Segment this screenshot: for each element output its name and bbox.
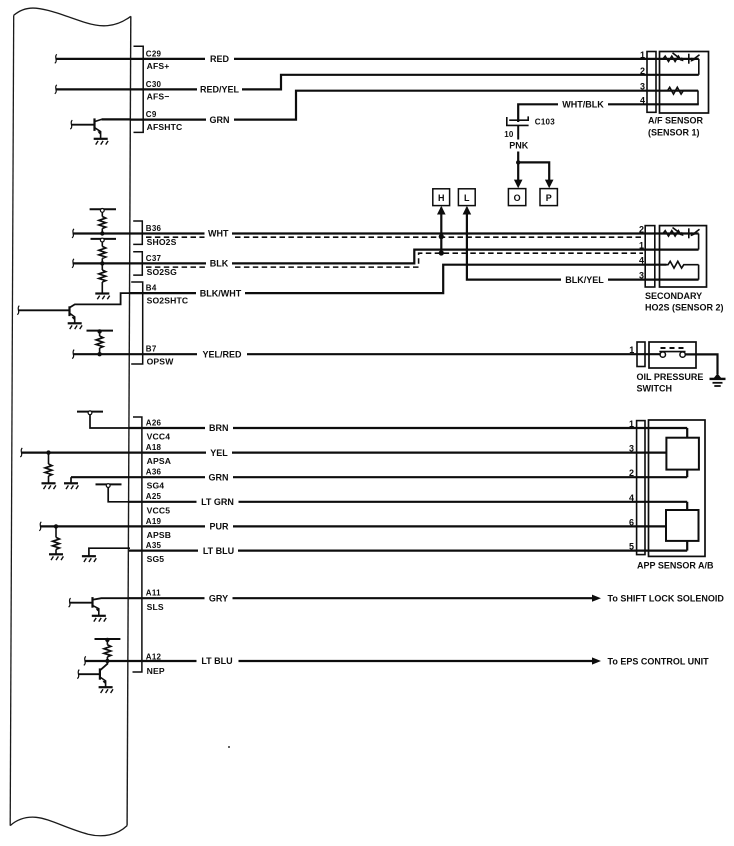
oil pressure switch box xyxy=(649,342,696,368)
svg-text:H: H xyxy=(438,193,445,203)
wire A12 LT BLU to EPS control unit xyxy=(85,655,593,668)
svg-text:6: 6 xyxy=(629,517,634,527)
svg-text:LT GRN: LT GRN xyxy=(201,497,234,507)
svg-text:OPSW: OPSW xyxy=(147,356,175,366)
label To EPS CONTROL UNIT xyxy=(608,656,710,666)
wire A11 GRY to shift lock solenoid xyxy=(129,592,593,605)
svg-text:3: 3 xyxy=(629,444,634,454)
VCC4 feed line xyxy=(90,415,130,428)
shield dashed line WHT xyxy=(146,236,643,238)
connector bracket A26-A12 xyxy=(133,417,142,672)
svg-text:A12: A12 xyxy=(146,653,162,662)
APP inner wiring pin5 up xyxy=(686,541,688,551)
label YEL xyxy=(210,448,228,458)
pin label C30 / AFS- xyxy=(146,80,170,102)
transistor Q1 AFSHTC driver xyxy=(71,118,102,138)
SG5 inner line + ground drop xyxy=(89,548,130,556)
pin label C37 / SO2SG xyxy=(146,254,177,277)
svg-text:YEL: YEL xyxy=(210,448,228,458)
label C103 xyxy=(535,117,555,126)
break mark C30 xyxy=(55,85,57,94)
connector bracket C37 xyxy=(133,252,142,275)
svg-text:SO2SHTC: SO2SHTC xyxy=(147,296,189,306)
SG4 ground drop xyxy=(70,477,72,482)
APP connector bar xyxy=(637,421,645,555)
ground SG4 xyxy=(64,483,78,489)
VCC5 feed line xyxy=(108,487,130,501)
test point L vertical wire + BLK/YEL to sensor2 pin 3 xyxy=(467,208,699,287)
break mark B36 xyxy=(72,229,74,238)
svg-text:A26: A26 xyxy=(146,418,162,427)
label PUR xyxy=(209,522,229,532)
svg-text:L: L xyxy=(464,193,470,203)
terminal box L xyxy=(458,189,475,206)
svg-text:A36: A36 xyxy=(146,468,162,477)
label BRN xyxy=(209,423,229,433)
svg-text:GRY: GRY xyxy=(209,593,228,603)
power rail circle R2 xyxy=(100,238,104,242)
svg-text:4: 4 xyxy=(640,95,645,105)
test point H vertical wire xyxy=(440,208,442,253)
wire A26 BRN to APP pin 1 xyxy=(129,422,687,435)
svg-text:B36: B36 xyxy=(146,224,162,233)
svg-text:A/F SENSOR: A/F SENSOR xyxy=(648,115,704,125)
svg-text:4: 4 xyxy=(629,493,634,503)
svg-text:AFSHTC: AFSHTC xyxy=(147,122,183,132)
svg-text:3: 3 xyxy=(640,82,645,92)
svg-text:A25: A25 xyxy=(146,492,162,501)
wire from switch to ground xyxy=(686,354,718,374)
pin numbers APP sensor xyxy=(629,419,634,552)
wire C9 GRN to sensor pin 3 xyxy=(102,91,699,127)
ground SG5 xyxy=(82,556,96,562)
label OIL PRESSURE SWITCH xyxy=(637,372,704,394)
power rail circle R1 xyxy=(100,209,104,213)
svg-text:2: 2 xyxy=(639,225,644,235)
switch contacts xyxy=(659,348,685,357)
resistor R3 below C37 to ground xyxy=(99,263,106,293)
break mark Q1 base xyxy=(70,120,72,129)
svg-text:To SHIFT LOCK SOLENOID: To SHIFT LOCK SOLENOID xyxy=(608,594,725,604)
terminal box P xyxy=(540,189,557,206)
svg-text:VCC5: VCC5 xyxy=(147,505,171,515)
in-line connector C103 xyxy=(507,116,529,125)
arrow to shift lock solenoid xyxy=(592,595,601,602)
svg-text:SWITCH: SWITCH xyxy=(637,383,673,393)
label RED/YEL xyxy=(200,85,240,95)
ground below APSB resistor xyxy=(49,554,63,560)
pin label B4 / SO2SHTC xyxy=(146,284,188,306)
svg-text:1: 1 xyxy=(640,50,645,60)
svg-text:APSB: APSB xyxy=(147,530,171,540)
svg-text:2: 2 xyxy=(629,468,634,478)
wire A18 YEL to APP pin 3 xyxy=(21,446,667,459)
APP inner wiring pin1 down xyxy=(686,428,688,438)
arrow to EPS control unit xyxy=(592,657,601,664)
svg-text:OIL PRESSURE: OIL PRESSURE xyxy=(637,372,704,382)
terminal box H xyxy=(433,189,450,206)
label BLK/WHT xyxy=(200,288,242,298)
stray printed dot xyxy=(228,746,230,748)
label GRN xyxy=(209,472,229,482)
label gap + WHT xyxy=(205,227,233,240)
svg-text:SECONDARY: SECONDARY xyxy=(645,291,702,301)
svg-text:APSA: APSA xyxy=(147,456,171,466)
arrow into L box xyxy=(463,206,472,215)
ground below R3 xyxy=(95,294,109,300)
svg-text:To EPS CONTROL UNIT: To EPS CONTROL UNIT xyxy=(608,656,710,666)
svg-text:P: P xyxy=(546,193,552,203)
transistor Q3 SLS driver xyxy=(69,597,130,615)
wire A36 GRN to APP pin 2 xyxy=(71,471,687,484)
svg-text:SO2SG: SO2SG xyxy=(147,267,178,277)
svg-text:SG5: SG5 xyxy=(147,554,165,564)
svg-text:C9: C9 xyxy=(146,110,157,119)
pin numbers HO2S xyxy=(639,225,644,281)
ECM top torn edge xyxy=(14,8,131,26)
svg-text:VCC4: VCC4 xyxy=(147,432,171,442)
HO2S element (zigzag with arrows) pins 2-1 xyxy=(663,228,700,250)
wire WHT/BLK from sensor pin 4 xyxy=(518,98,699,123)
HO2S outer box xyxy=(660,226,707,287)
svg-text:1: 1 xyxy=(629,345,634,355)
power rail bar above R1 xyxy=(90,208,116,210)
wire A35 LT BLU to APP pin 5 xyxy=(129,544,687,557)
pull-up resistor R1 to SHO2S xyxy=(99,212,106,233)
break mark B7 xyxy=(72,350,74,359)
power rail dot R4 xyxy=(97,329,101,333)
label PNK xyxy=(509,140,529,150)
pin label B36 / SHO2S xyxy=(146,224,177,247)
svg-text:3: 3 xyxy=(639,271,644,281)
pin label A36 / SG4 xyxy=(146,468,165,491)
power rail bar NEP xyxy=(95,638,121,640)
power rail bar VCC4 xyxy=(77,411,103,413)
label LT BLU xyxy=(201,656,232,666)
svg-text:B4: B4 xyxy=(146,284,157,293)
wire B7 YEL/RED to oil pressure switch xyxy=(73,348,661,361)
label SECONDARY HO2S (SENSOR 2) xyxy=(645,291,724,313)
break mark A18 xyxy=(20,448,22,457)
label GRN xyxy=(210,115,230,125)
wire B4 BLK/WHT to sensor2 pin 4 xyxy=(129,265,667,300)
power rail bar above R2 xyxy=(91,238,117,240)
chassis ground symbol xyxy=(710,373,726,386)
svg-text:SG4: SG4 xyxy=(147,481,165,491)
svg-text:2: 2 xyxy=(640,66,645,76)
pull-down resistor APSB xyxy=(53,526,60,554)
terminal box O xyxy=(508,189,525,206)
svg-text:YEL/RED: YEL/RED xyxy=(202,349,242,359)
ground Q1 emitter xyxy=(94,139,108,145)
svg-text:B7: B7 xyxy=(146,345,157,354)
APP inner wiring pin4 down xyxy=(686,502,688,510)
label GRY xyxy=(209,593,228,603)
svg-text:(SENSOR 1): (SENSOR 1) xyxy=(648,127,700,137)
pin label A26 / VCC4 xyxy=(146,418,170,441)
arrow into H box xyxy=(437,206,446,215)
junction node APSA xyxy=(46,450,50,454)
label BLK/YEL xyxy=(565,275,604,285)
junction dot H on BLK shield xyxy=(439,250,444,255)
svg-text:1: 1 xyxy=(639,241,644,251)
APP sensor outer box xyxy=(649,420,706,556)
svg-text:SHO2S: SHO2S xyxy=(147,237,177,247)
svg-text:4: 4 xyxy=(639,256,644,266)
svg-text:APP SENSOR A/B: APP SENSOR A/B xyxy=(637,560,714,570)
wire C37 BLK to sensor2 pin 1 xyxy=(73,250,699,264)
oil pressure switch connector bar xyxy=(637,342,645,367)
junction node on C37 wire xyxy=(100,261,104,265)
svg-text:RED/YEL: RED/YEL xyxy=(200,85,240,95)
svg-text:A18: A18 xyxy=(146,443,162,452)
wire A25 LT GRN to APP pin 4 xyxy=(129,495,687,508)
ground below APSA resistor xyxy=(42,483,56,489)
pull-down resistor APSA xyxy=(45,453,52,483)
power rail bar VCC5 xyxy=(96,483,122,485)
ECM left edge xyxy=(10,15,14,825)
ECM right edge xyxy=(127,16,131,825)
HO2S connector bar xyxy=(645,226,655,287)
pin label A18 / APSA xyxy=(146,443,171,466)
wire C29 RED to sensor pin 1 xyxy=(56,52,699,66)
break mark Q2 base xyxy=(17,306,19,315)
svg-text:A11: A11 xyxy=(146,589,161,598)
break mark Q4 base xyxy=(77,670,79,679)
svg-text:WHT: WHT xyxy=(208,229,229,239)
svg-text:AFS−: AFS− xyxy=(147,92,170,102)
junction node NEP xyxy=(105,659,109,663)
pin numbers A/F sensor xyxy=(640,50,645,105)
pin label A25 / VCC5 xyxy=(146,492,170,515)
junction node PNK split xyxy=(516,160,520,164)
svg-text:BRN: BRN xyxy=(209,423,229,433)
break mark A19 xyxy=(39,522,41,531)
label LT GRN xyxy=(201,497,234,507)
label RED xyxy=(210,54,230,64)
connector bracket B4-B7 xyxy=(131,282,143,364)
A/F sensor heater resistor pins 3-4 xyxy=(664,87,698,104)
label WHT/BLK xyxy=(562,99,604,109)
wire PNK below label to junction xyxy=(518,152,549,181)
A/F sensor element (zigzag with arrows) pins 1-2 xyxy=(663,53,700,75)
ground Q3 emitter xyxy=(92,616,106,622)
pin label A19 / APSB xyxy=(146,517,171,540)
arrow into O box xyxy=(514,180,523,189)
break mark A12 xyxy=(84,656,86,665)
A/F sensor outer box xyxy=(660,52,709,114)
junction node on B7 wire xyxy=(97,352,101,356)
APP sensor A inner box xyxy=(666,438,699,470)
pin label B7 / OPSW xyxy=(146,345,174,367)
power rail bar above R4 (OPSW pull-up) xyxy=(87,330,114,332)
svg-text:AFS+: AFS+ xyxy=(147,61,170,71)
arrow into P box xyxy=(545,180,554,189)
pull-up resistor R2 to SO2SG xyxy=(99,242,106,263)
svg-text:RED: RED xyxy=(210,54,230,64)
break mark Q3 base xyxy=(69,598,71,607)
pin label C29 / AFS+ xyxy=(146,49,170,71)
svg-text:GRN: GRN xyxy=(209,472,229,482)
svg-text:NEP: NEP xyxy=(147,666,165,676)
svg-text:HO2S (SENSOR 2): HO2S (SENSOR 2) xyxy=(645,302,724,312)
pin label C9 / AFSHTC xyxy=(146,110,183,132)
shield dashed line BLK xyxy=(146,253,643,267)
power rail dot NEP xyxy=(105,638,109,642)
svg-text:WHT/BLK: WHT/BLK xyxy=(562,99,604,109)
svg-text:O: O xyxy=(514,193,521,203)
junction node APSB xyxy=(54,524,58,528)
svg-text:C103: C103 xyxy=(535,117,555,126)
label APP SENSOR A/B xyxy=(637,560,714,570)
svg-text:PNK: PNK xyxy=(509,140,529,150)
svg-text:BLK/WHT: BLK/WHT xyxy=(200,288,242,298)
pull-up resistor NEP xyxy=(104,640,111,661)
APP inner wiring pin2 up xyxy=(686,470,688,478)
break mark C37 xyxy=(72,259,74,268)
APP sensor B inner box xyxy=(666,510,699,541)
HO2S heater resistor pins 4-3 xyxy=(667,261,699,279)
connector bracket C29-C9 xyxy=(134,46,144,132)
svg-text:1: 1 xyxy=(629,419,634,429)
junction dot H on WHT shield xyxy=(439,234,444,239)
ground Q2 emitter xyxy=(68,323,82,329)
ECM bottom torn edge xyxy=(10,817,127,836)
svg-text:PUR: PUR xyxy=(209,522,229,532)
pin label A35 / SG5 xyxy=(146,541,165,564)
svg-text:C37: C37 xyxy=(146,254,162,263)
label To SHIFT LOCK SOLENOID xyxy=(608,594,725,604)
wire PNK segment xyxy=(517,125,519,139)
pin number oil pressure switch xyxy=(629,345,634,355)
break mark C29 xyxy=(55,54,57,63)
svg-text:C29: C29 xyxy=(146,49,162,58)
power rail circle VCC5 xyxy=(106,484,110,488)
A/F sensor connector bar xyxy=(647,52,656,113)
label 10 xyxy=(504,130,514,139)
label LT BLU xyxy=(203,546,234,556)
label gap + BLK xyxy=(206,257,232,270)
svg-text:A35: A35 xyxy=(146,541,162,550)
svg-text:LT BLU: LT BLU xyxy=(201,656,232,666)
connector bracket B36 xyxy=(133,221,142,244)
wire B36 WHT to sensor2 pin 2 xyxy=(73,232,699,234)
ground Q4 emitter xyxy=(99,687,113,693)
power rail circle VCC4 xyxy=(88,411,92,415)
svg-text:BLK/YEL: BLK/YEL xyxy=(565,275,604,285)
transistor Q4 NEP xyxy=(78,661,107,687)
wire A19 PUR to APP pin 6 xyxy=(40,520,667,533)
svg-text:5: 5 xyxy=(629,542,634,552)
pull-up resistor R4 to OPSW xyxy=(96,331,103,354)
svg-text:LT BLU: LT BLU xyxy=(203,546,234,556)
junction node on B36 wire xyxy=(100,231,104,235)
pin label A11 / SLS xyxy=(146,589,164,613)
transistor Q2 SO2SHTC driver xyxy=(18,293,130,323)
svg-text:BLK: BLK xyxy=(210,259,229,269)
svg-text:GRN: GRN xyxy=(210,115,230,125)
svg-text:SLS: SLS xyxy=(147,602,164,612)
label A/F SENSOR (SENSOR 1) xyxy=(648,115,704,137)
svg-text:C30: C30 xyxy=(146,80,162,89)
label YEL/RED xyxy=(202,349,242,359)
wire C30 RED/YEL to sensor pin 2 xyxy=(56,75,699,96)
svg-text:A19: A19 xyxy=(146,517,162,526)
pin label A12 / NEP xyxy=(146,653,165,676)
svg-text:10: 10 xyxy=(504,130,514,139)
